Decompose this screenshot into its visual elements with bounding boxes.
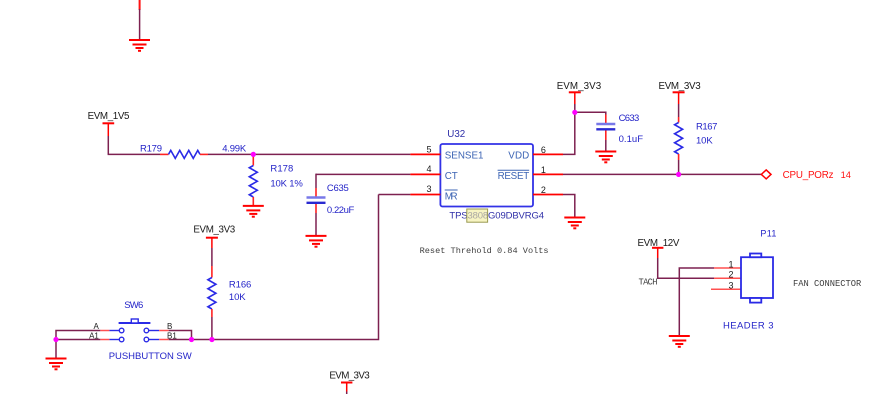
svg-text:C635: C635 [327, 183, 349, 194]
power EVM_3V3 (R166 rail) [193, 225, 235, 248]
value TPS3808G09DBVRG4 with 3808 highlighted [449, 209, 544, 222]
svg-text:EVM_3V3: EVM_3V3 [329, 370, 370, 381]
wire MR net vertical + bottom row to switch [169, 195, 379, 340]
ground (top-left) [129, 40, 150, 51]
junction node R178/R179 [251, 152, 256, 157]
resistor R178 [249, 154, 303, 206]
svg-text:R178: R178 [270, 164, 293, 175]
svg-text:SENSE1: SENSE1 [445, 151, 484, 162]
svg-text:RESET: RESET [498, 171, 530, 182]
power EVM_3V3 (R167 rail) [659, 81, 702, 104]
wire junction down to pin6 corner [563, 112, 575, 154]
svg-text:CPU_PORz: CPU_PORz [783, 170, 834, 181]
svg-text:14: 14 [841, 170, 851, 180]
switch SW6 pushbutton [109, 300, 192, 362]
svg-text:R166: R166 [229, 279, 251, 290]
pin 1 stub (P11) [714, 260, 741, 270]
wire SENSE1 net left segment [108, 153, 160, 155]
wire down to ground left [55, 340, 57, 359]
ground (U32 GND) [564, 218, 585, 229]
wire SENSE1 net middle [208, 153, 410, 155]
power EVM_1V5 [88, 111, 130, 136]
svg-text:FAN CONNECTOR: FAN CONNECTOR [793, 279, 862, 289]
wire C633 to ground [605, 140, 607, 152]
svg-text:4.99K: 4.99K [222, 144, 247, 155]
power EVM_3V3 (bottom) [329, 370, 370, 394]
wire junction right to C633 [575, 112, 606, 114]
svg-text:5: 5 [426, 144, 431, 154]
svg-text:0.22uF: 0.22uF [327, 205, 355, 216]
pin 2 stub (P11) [714, 270, 741, 280]
svg-text:TACH: TACH [639, 278, 658, 288]
svg-text:TPS3808G09DBVRG4: TPS3808G09DBVRG4 [449, 210, 544, 221]
svg-text:C633: C633 [619, 113, 640, 124]
svg-text:10K 1%: 10K 1% [270, 179, 303, 190]
wire GND pin to ground [563, 195, 575, 218]
wire header pin1 to ground [679, 268, 714, 336]
junction node VDD rail [572, 110, 577, 115]
power EVM_3V3 (VDD rail) [557, 81, 602, 104]
ground (R178) [243, 206, 264, 217]
pin A stub [94, 322, 110, 331]
svg-text:MR: MR [445, 191, 458, 202]
junction node B corner [189, 337, 194, 342]
off-page connector diamond CPU_PORz [761, 170, 771, 179]
pin 5 SENSE1 stub [410, 144, 440, 154]
pin 1 RESET stub [533, 165, 563, 175]
connector P11 header body [723, 228, 776, 331]
svg-text:2: 2 [728, 270, 733, 280]
svg-text:1: 1 [728, 260, 733, 270]
svg-text:10K: 10K [229, 292, 246, 303]
svg-text:CT: CT [445, 171, 458, 182]
wire EVM_1V5 down [107, 136, 109, 154]
junction node RESET/R167 [676, 172, 681, 177]
wire EVM_3V3 down to R167 [678, 104, 680, 117]
svg-text:Reset Threhold 0.84 Volts: Reset Threhold 0.84 Volts [420, 246, 549, 256]
chip U32 body [440, 129, 533, 207]
pin B1 stub [159, 331, 177, 340]
resistor R166 [208, 266, 251, 317]
svg-text:3: 3 [426, 184, 431, 194]
wire R167 down to RESET net [678, 160, 680, 174]
svg-text:PUSHBUTTON SW: PUSHBUTTON SW [109, 351, 192, 362]
svg-text:4: 4 [426, 164, 431, 174]
svg-text:6: 6 [541, 145, 546, 155]
wire A row to left corner [56, 331, 100, 340]
junction node R166/bottom net [209, 337, 214, 342]
wire CT net horizontal [316, 173, 410, 175]
svg-text:2: 2 [541, 185, 546, 195]
svg-text:EVM_1V5: EVM_1V5 [88, 111, 130, 122]
pin A1 stub [89, 331, 109, 340]
svg-text:10K: 10K [696, 135, 713, 146]
svg-text:EVM_3V3: EVM_3V3 [659, 81, 702, 92]
power EVM_12V [638, 238, 680, 258]
pin name MR with overline [445, 190, 458, 202]
svg-text:HEADER 3: HEADER 3 [723, 321, 774, 332]
ground (C633) [595, 152, 616, 163]
ground (switch left) [46, 359, 67, 370]
pin name RESET with overline [498, 170, 530, 182]
wire C635 to ground [315, 213, 317, 236]
resistor R179 [140, 144, 247, 159]
capacitor C633 [596, 113, 643, 145]
wire B row to corner down [169, 331, 192, 340]
net label CPU_PORz 14 [783, 170, 851, 181]
svg-text:SW6: SW6 [124, 300, 143, 311]
svg-text:EVM_3V3: EVM_3V3 [193, 225, 235, 236]
svg-text:3: 3 [728, 281, 733, 291]
pin 3 MR stub [410, 184, 440, 195]
pin 2 GND stub [533, 185, 563, 195]
svg-text:B1: B1 [167, 331, 177, 340]
wire VDD rail down to junction [574, 104, 576, 112]
svg-text:R179: R179 [140, 144, 162, 155]
wire RESET net to off-page [563, 173, 761, 175]
wire EVM_3V3 down to R166 [211, 248, 213, 266]
wire MR net horizontal [379, 194, 411, 196]
wire top-left vertical to ground [139, 0, 141, 40]
pin B stub [159, 322, 172, 331]
pin 6 VDD stub [533, 145, 563, 155]
ground (C635) [306, 236, 327, 247]
ground (P11 pin1) [669, 336, 690, 347]
wire A1 row [56, 339, 100, 341]
wire R166 down to switch net [211, 317, 213, 340]
svg-text:R167: R167 [696, 121, 717, 132]
svg-text:U32: U32 [447, 129, 465, 140]
resistor R167 [675, 117, 718, 160]
svg-text:1: 1 [541, 165, 546, 175]
junction node left of switch [53, 337, 58, 342]
pin 3 stub (P11) [711, 281, 741, 291]
svg-text:VDD: VDD [508, 151, 529, 162]
pin 4 CT stub [410, 164, 440, 174]
wire CT net down to C635 [315, 174, 317, 188]
capacitor C635 [307, 183, 355, 216]
svg-text:0.1uF: 0.1uF [619, 134, 644, 145]
svg-text:P11: P11 [760, 228, 776, 238]
svg-text:EVM_3V3: EVM_3V3 [557, 81, 602, 92]
wire EVM_12V to header pin2 [658, 258, 714, 278]
